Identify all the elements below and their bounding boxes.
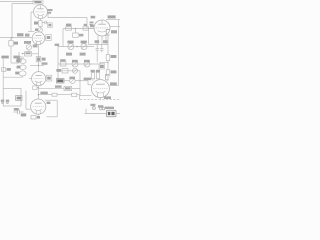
wire V4 left [26,91,31,110]
node H6 [75,28,76,29]
potentiometer P8 [73,68,78,73]
potentiometer P2 [9,38,19,63]
wire right edge vertical [117,20,119,86]
tube V6 [91,80,109,98]
resistor R9 [31,114,40,119]
transformer T2 dots [98,105,105,110]
wire stub into V2 top [28,31,35,33]
node right [107,62,108,63]
wire load right [116,112,120,114]
wire long top bus [48,17,87,19]
wire right top 1 [106,19,120,21]
resistor R2 [22,52,39,56]
transformer T1 [3,88,22,106]
wire V3 left pin [29,78,32,80]
wire V3 to V4 [37,86,39,99]
capacitor C3 can [17,65,26,70]
wire grid row [38,94,52,96]
wire top outer [0,1,35,3]
label above bus 2 [25,34,30,37]
wire V1 left pin [31,11,34,13]
capacitor C6 [73,29,84,38]
potentiometer P5 [81,41,87,50]
label above bus 1 [17,33,24,36]
tube V5 [88,20,110,36]
resistor R7 [52,93,72,96]
tube V1 [34,5,48,19]
label right top [108,15,116,18]
wire H left bus [0,37,32,39]
node row4 [79,80,80,81]
wire grid H [30,64,44,66]
wire left vertical from top [11,4,13,38]
wire center col vertical [57,45,59,79]
wire to V6 grid [88,81,91,85]
resistor R15 [96,70,100,81]
wire cap stack [22,56,24,59]
wire plate feed drop [88,30,90,44]
wire to V6 cathode [80,95,91,97]
connector J1 [2,68,11,72]
label V5 left [90,25,94,28]
lamp DS1 [90,104,95,110]
label above load [105,107,114,109]
label grid [42,62,48,64]
wire V5 pin stub 1 [97,36,99,45]
label center col [55,44,60,46]
node at x13 [11,37,12,38]
wire P8 drop [79,71,81,81]
resistor R6 [64,86,80,90]
resistor R3 [36,57,45,62]
wire x108 vertical [107,35,109,55]
label left top 2 [13,56,19,59]
wire left edge vertical [2,59,4,89]
wire row1 [58,46,94,48]
potentiometer P1 [35,28,43,32]
tube V3 [32,72,46,86]
wire bottom right bus [85,109,107,114]
tube V2 [32,32,45,45]
capacitor C5 [13,108,26,116]
label V4 right [47,102,51,104]
resistor R16 [106,55,116,61]
node V4 grid [38,94,40,96]
label V1 designator [48,9,53,14]
wire V5 pin stub 3 [105,36,107,45]
wire V1 plate drop [47,14,49,18]
label box Bplus [56,79,69,83]
label below row1 b [80,53,86,56]
wire cap stack bottom [22,76,24,77]
label left top 1 [1,56,8,59]
potentiometer P4 [67,41,73,50]
label V4 grid [40,92,47,95]
potentiometer P3 [26,44,37,51]
capacitor C11 [100,44,103,52]
wire V2 to V3 vertical [37,45,39,72]
wire row2 link [95,62,108,64]
label box V2 [45,35,51,41]
dashed chassis line [80,99,120,101]
label cluster [24,41,31,44]
node V3 cathode [38,87,40,89]
wire V6 plate out [109,85,118,87]
wire right top 2 [110,25,120,27]
label cathode bus [55,85,62,87]
label V6 out [110,82,117,85]
wire V6 bottom stub [99,98,101,100]
capacitor C7 bracket [106,74,109,81]
resistor R10 [66,24,72,31]
capacitor C1 [42,21,52,28]
wire row3 [58,70,80,72]
label below row1 a [66,53,72,56]
tube V4 [31,99,46,114]
resistor R13 [56,69,68,73]
wire V4 right loop [45,100,57,117]
capacitor C4 can [15,71,26,76]
resistor R5 [33,86,39,90]
resistor R17 [106,61,116,79]
potentiometer P7 [84,60,90,67]
wire plate bus H6 [63,28,94,30]
resistor R8 [72,93,80,100]
node V3 grid [38,65,40,67]
label V5 top [91,16,96,19]
wire V5 bottom bus [89,43,109,45]
wire x97 vertical [96,52,98,62]
wire plate drop x63 [62,29,64,47]
resistor R14 [91,70,95,81]
wire cathode bus [38,87,64,89]
capacitor C2 can [17,59,26,64]
resistor R1 cathode V1 [34,18,42,28]
input label box [33,0,43,4]
wire drop at x87 [86,18,88,29]
terminal B [6,100,9,104]
resistor R4 small left [16,52,21,63]
node row1 [76,46,77,47]
capacitor C9 [99,64,105,69]
label above dashed [104,96,111,99]
wire V5 pin stub 2 [101,36,103,44]
label V5 pins b [103,40,108,43]
wire row2 [58,63,95,65]
wire row4 [75,80,88,82]
label row4 [84,78,92,81]
resistor R12 [60,59,66,66]
label V5 pins a [95,40,100,43]
label box V3 [46,75,52,81]
capacitor C10 [96,44,99,52]
potentiometer P6 [72,60,78,67]
wire bottom left horizontal [3,76,22,78]
wire V1 grid drop [30,12,32,32]
terminal A [1,100,4,104]
resistor R11 [83,24,89,30]
wire top inner [12,3,33,5]
speaker load box [106,110,116,117]
label near V5 grid [90,22,94,26]
potentiometer P9 [69,77,75,84]
capacitor C8 bracket [106,30,117,35]
wire row4 drop [79,81,81,96]
